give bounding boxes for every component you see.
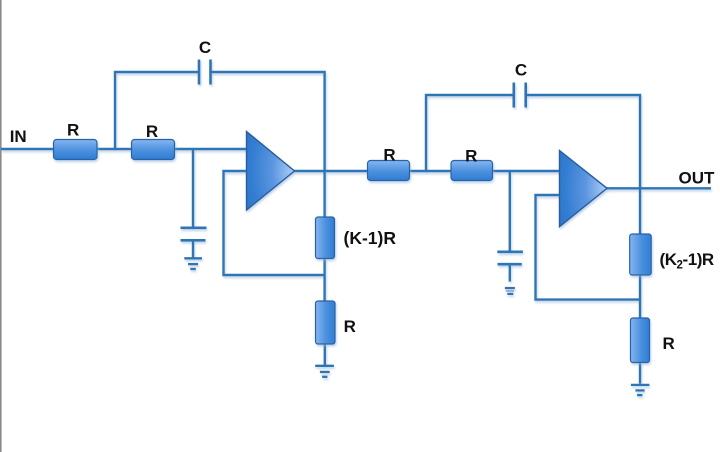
wire capacitor C3 right plate down to (K2-1)R — [526, 95, 640, 234]
wire R chain to ground G4 — [639, 363, 641, 384]
svg-text:(K2-1)R: (K2-1)R — [660, 250, 714, 272]
wire node D down to capacitor C4g — [509, 171, 511, 252]
resistor R3 — [368, 161, 410, 181]
wire node A up and top feedback run to capacitor C1 — [115, 72, 199, 149]
left page border — [0, 0, 2, 452]
wire node C up and top run to capacitor C3 — [426, 95, 514, 171]
op-amp U2 — [560, 151, 608, 227]
ground G4 — [631, 385, 650, 395]
wire U2 inverting input feedback — [536, 195, 641, 300]
resistor R2 — [132, 140, 175, 160]
capacitor C4g shunt — [497, 252, 523, 264]
resistor R chain1 — [316, 301, 336, 344]
ground G2 — [315, 366, 334, 377]
ground G3 — [505, 288, 515, 294]
svg-text:OUT: OUT — [679, 168, 716, 187]
wire (K-1)R to R chain — [323, 259, 325, 302]
svg-text:(K-1)R: (K-1)R — [344, 228, 397, 248]
resistor R chain2 — [631, 318, 650, 363]
ground G1 — [184, 258, 202, 269]
svg-text:C: C — [515, 60, 527, 79]
op-amp U1 — [247, 132, 295, 211]
svg-text:R: R — [146, 122, 158, 141]
wire U1 inverting input feedback — [224, 171, 325, 275]
resistor (K2-1)R — [630, 234, 652, 275]
svg-text:R: R — [383, 145, 395, 164]
svg-text:R: R — [465, 146, 477, 165]
wire IN input — [1, 148, 54, 150]
wire R chain to ground G2 — [324, 344, 326, 365]
wire R4 to op-amp U2 plus input — [493, 170, 560, 172]
capacitor C1 — [199, 60, 211, 85]
wire R1 to R2 — [97, 148, 132, 150]
resistor R1 — [54, 140, 98, 160]
capacitor C2g shunt — [181, 228, 207, 241]
wire capacitor C4g to ground — [509, 264, 511, 281]
wire capacitor C1 right plate to vertical into node at output — [211, 72, 325, 217]
resistor (K-1)R — [316, 217, 335, 259]
svg-text:C: C — [199, 38, 211, 57]
wire U2 output to OUT — [606, 187, 711, 189]
svg-text:R: R — [67, 120, 79, 139]
svg-text:R: R — [663, 334, 675, 353]
wire U1 output to R3 — [294, 170, 368, 172]
resistor R4 — [451, 161, 493, 181]
svg-text:IN: IN — [10, 127, 27, 146]
wire R3 to R4 — [410, 170, 452, 172]
wire capacitor C2g to ground — [192, 240, 194, 258]
wire node B down to capacitor C2g — [192, 149, 194, 227]
svg-text:R: R — [344, 317, 356, 336]
wire R2 to op-amp U1 plus input — [174, 148, 247, 150]
wire (K2-1)R to R chain — [639, 275, 641, 318]
capacitor C3 — [514, 83, 526, 108]
